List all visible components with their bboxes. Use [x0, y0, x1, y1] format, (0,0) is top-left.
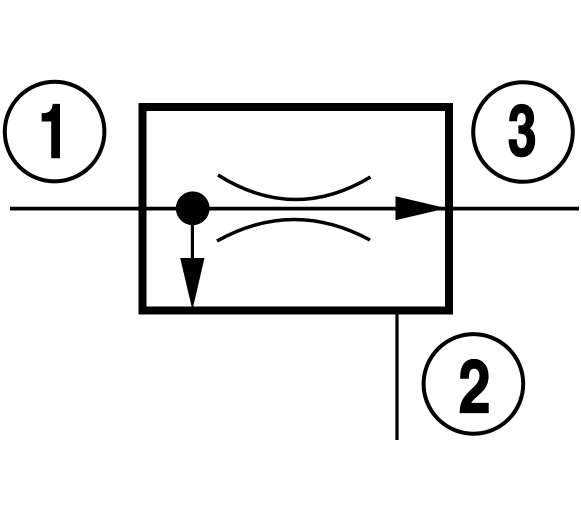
label digit 3	[509, 104, 535, 156]
port circle 3	[473, 82, 573, 182]
valve body box	[143, 107, 450, 311]
junction node dot	[176, 191, 210, 225]
wire: port 2 line	[395, 310, 398, 440]
port circle 1	[5, 82, 105, 182]
pilot arrowhead down	[180, 258, 204, 310]
wire: main flow line port 1 to port 3	[10, 207, 579, 211]
venturi restriction upper curve	[218, 175, 371, 200]
label digit 2	[460, 359, 488, 412]
port circle 2	[424, 334, 524, 434]
flow direction arrowhead right	[396, 196, 447, 220]
wire: pilot stem from node	[191, 222, 194, 262]
label digit 1	[42, 104, 59, 157]
venturi restriction lower curve	[217, 219, 370, 241]
